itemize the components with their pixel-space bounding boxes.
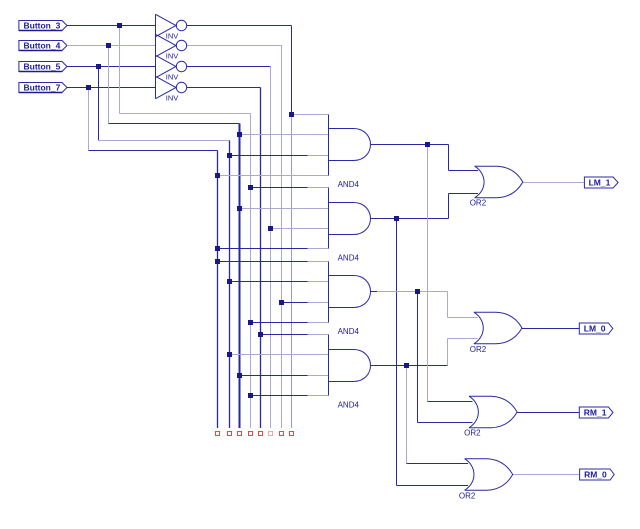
svg-text:INV: INV: [166, 32, 179, 41]
svg-text:LM_1: LM_1: [589, 178, 611, 188]
svg-text:LM_0: LM_0: [584, 324, 606, 334]
svg-text:OR2: OR2: [464, 429, 481, 438]
svg-text:AND4: AND4: [338, 327, 360, 336]
svg-text:OR2: OR2: [470, 199, 487, 208]
svg-text:AND4: AND4: [338, 253, 360, 262]
svg-text:Button_7: Button_7: [24, 83, 61, 93]
svg-text:AND4: AND4: [338, 180, 360, 189]
svg-text:OR2: OR2: [470, 345, 487, 354]
svg-text:Button_4: Button_4: [24, 41, 61, 51]
svg-text:AND4: AND4: [338, 400, 360, 409]
svg-text:Button_5: Button_5: [24, 62, 61, 72]
svg-text:RM_0: RM_0: [584, 470, 607, 480]
svg-text:RM_1: RM_1: [584, 408, 607, 418]
svg-text:INV: INV: [166, 52, 179, 61]
svg-text:Button_3: Button_3: [24, 21, 61, 31]
svg-text:OR2: OR2: [459, 491, 476, 500]
svg-text:INV: INV: [166, 73, 179, 82]
svg-text:INV: INV: [166, 94, 179, 103]
